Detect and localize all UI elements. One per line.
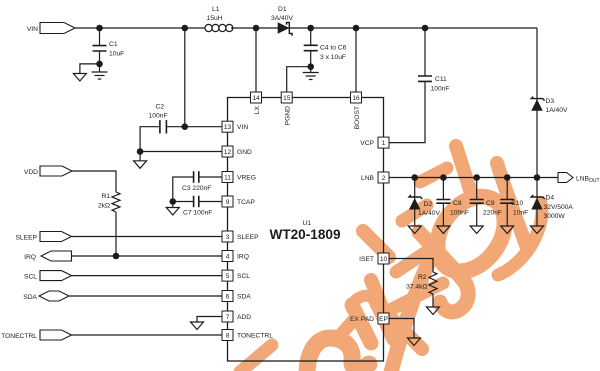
pin box 13 (222, 121, 233, 132)
svg-text:37.4kΩ: 37.4kΩ (406, 284, 427, 291)
wire C3 to corner (173, 177, 194, 208)
svg-text:2kΩ: 2kΩ (98, 203, 110, 210)
svg-text:EP: EP (379, 316, 388, 323)
junction node GND corner (137, 148, 144, 155)
svg-text:13: 13 (224, 124, 232, 131)
ground chassis (GND/C2) (134, 161, 147, 169)
junction node D3/D4 (534, 174, 541, 181)
svg-text:16: 16 (352, 95, 360, 102)
watermark f descender with left hook (419, 232, 468, 312)
diode D1 (Schottky) (278, 22, 292, 36)
wire C2 to corner (140, 127, 160, 161)
svg-text:1A/40V: 1A/40V (418, 210, 440, 217)
pin box 6 (222, 291, 233, 302)
watermark t crossbar a (384, 283, 443, 313)
svg-text:VIN: VIN (237, 124, 248, 131)
svg-text:VDD: VDD (24, 169, 38, 176)
wire C10 column bottom (506, 203, 508, 226)
wire pin9 TCAP to C7 (199, 201, 222, 203)
wire LX column (255, 28, 257, 92)
connector flag LNBOUT (558, 173, 573, 183)
svg-text:220nF: 220nF (483, 210, 502, 217)
resistor R2 (429, 272, 437, 294)
wire VIN rail mid (231, 27, 537, 29)
junction node C9 (473, 174, 480, 181)
svg-text:7: 7 (226, 314, 230, 321)
ground earth (C4) (303, 73, 319, 80)
svg-text:8: 8 (226, 333, 230, 340)
IC U1 body (228, 98, 384, 362)
svg-text:6: 6 (226, 294, 230, 301)
svg-text:R1: R1 (101, 193, 110, 200)
svg-text:3 x 10uF: 3 x 10uF (320, 54, 346, 61)
junction node C8 (440, 174, 447, 181)
wire C10 column top (506, 178, 508, 200)
pin box 5 (222, 270, 233, 281)
wire R2 to ground (432, 294, 434, 307)
svg-text:15: 15 (283, 95, 291, 102)
wire SLEEP line (72, 236, 223, 238)
junction node LX (253, 25, 260, 32)
svg-text:C3 220nF: C3 220nF (182, 185, 211, 192)
svg-text:R2: R2 (418, 274, 427, 281)
wire C1 column (99, 28, 101, 45)
capacitor C10 (500, 200, 514, 204)
svg-text:C10: C10 (511, 200, 524, 207)
wire R1 to IRQ line (115, 212, 117, 256)
svg-text:100nF: 100nF (149, 113, 168, 120)
watermark letter e loop (307, 338, 369, 371)
svg-text:9: 9 (226, 199, 230, 206)
capacitor C2 (160, 120, 167, 134)
svg-text:GND: GND (237, 149, 252, 156)
svg-text:3: 3 (226, 234, 230, 241)
svg-text:10uF: 10uF (109, 51, 124, 58)
svg-text:TONECTRL: TONECTRL (237, 333, 273, 340)
pin box 9 (222, 196, 233, 207)
svg-text:32V/500A: 32V/500A (544, 204, 574, 211)
wire C9 column top (476, 178, 478, 200)
svg-text:SDA: SDA (23, 294, 37, 301)
ground chassis (C3/C7) (166, 208, 179, 216)
svg-text:L1: L1 (212, 6, 220, 13)
svg-text:3000W: 3000W (544, 213, 566, 220)
svg-text:15uH: 15uH (207, 15, 223, 22)
wire BOOST column (355, 28, 357, 92)
junction node C1 top (96, 25, 103, 32)
pin box 11 (222, 172, 233, 183)
watermark d flick (240, 345, 272, 371)
connector flag SLEEP (40, 232, 72, 242)
pin box 12 (222, 146, 233, 157)
watermark l tip (456, 146, 472, 196)
watermark t downstroke lower (393, 320, 422, 349)
pin box 16 (351, 92, 362, 103)
ground chassis (ADD) (191, 322, 204, 330)
watermark Confidential (visible script-letter fragments, rotated) (240, 146, 542, 371)
watermark t downstroke mid (371, 280, 392, 332)
junction node C4 bottom (307, 63, 314, 70)
svg-text:C1: C1 (109, 41, 118, 48)
watermark exit hook (498, 203, 542, 275)
svg-text:C4 to C6: C4 to C6 (320, 45, 347, 52)
svg-text:C2: C2 (156, 104, 165, 111)
wire C7 left (173, 201, 194, 203)
ground chassis (R2) (427, 307, 440, 315)
wire SDA line (69, 295, 222, 297)
resistor R1 (112, 192, 120, 212)
svg-text:5: 5 (226, 273, 230, 280)
svg-text:10: 10 (380, 256, 388, 263)
junction node C3/C7 left (170, 198, 177, 205)
watermark letter n stem 1 (352, 305, 371, 343)
watermark t downstroke upper (363, 231, 389, 257)
wire C1 bottom (99, 52, 101, 72)
watermark letter n arch (353, 296, 375, 303)
svg-text:1A/40V: 1A/40V (546, 107, 568, 114)
watermark t upstroke (391, 264, 428, 371)
connector flag VIN (40, 23, 75, 34)
svg-text:VIN: VIN (27, 26, 38, 33)
pin box 4 (222, 251, 233, 262)
capacitor C7 (194, 196, 199, 207)
wire C4 bottom (310, 51, 312, 72)
capacitor C1 (93, 46, 107, 51)
watermark t crossbar b (396, 248, 432, 272)
svg-text:TCAP: TCAP (237, 199, 255, 206)
wire C11 to VCP (389, 82, 425, 143)
svg-text:U1: U1 (303, 220, 312, 227)
junction node C2 at VIN pin (182, 123, 189, 130)
capacitor C9 (470, 200, 484, 204)
watermark i dot dash a (420, 168, 447, 182)
junction node C10 (504, 174, 511, 181)
pin box 15 (281, 92, 292, 103)
svg-text:D3: D3 (546, 98, 555, 105)
svg-text:4: 4 (226, 254, 230, 261)
svg-text:C11: C11 (435, 76, 447, 83)
inductor L1 (205, 24, 233, 31)
wire pin12 GND line (140, 151, 222, 153)
pin box 2 (378, 172, 389, 183)
svg-text:SCL: SCL (237, 273, 250, 280)
wire C8 column bottom (442, 203, 444, 226)
svg-text:C7 100nF: C7 100nF (183, 210, 212, 217)
junction node BOOST (353, 25, 360, 32)
wire LNB line (389, 177, 558, 179)
wire VDD to R1 (72, 171, 116, 192)
svg-text:SLEEP: SLEEP (237, 234, 259, 241)
svg-text:VREG: VREG (237, 175, 256, 182)
svg-text:IRQ: IRQ (24, 254, 36, 261)
svg-text:ADD: ADD (237, 314, 251, 321)
svg-text:SCL: SCL (24, 274, 37, 281)
wire D3 column (536, 28, 538, 178)
svg-text:14: 14 (252, 95, 260, 102)
svg-text:TONECTRL: TONECTRL (1, 333, 37, 340)
wire ADD to ground (197, 317, 222, 323)
capacitor C8 (436, 200, 450, 204)
svg-text:2: 2 (382, 175, 386, 182)
junction node VIN/C2 column top (182, 25, 189, 32)
ground chassis (C9) (470, 226, 483, 234)
wire pin13 VIN line (166, 126, 222, 128)
ground earth (C1) (92, 72, 108, 79)
wire TONECTRL line (72, 334, 223, 336)
ground chassis (D4) (531, 226, 544, 234)
ground chassis (D2) (408, 226, 421, 234)
wire D2 column (414, 178, 416, 227)
ground chassis (C1 branch) (73, 74, 86, 82)
svg-text:C8: C8 (453, 200, 462, 207)
connector flag IRQ (output) (41, 251, 72, 261)
svg-text:WT20-1809: WT20-1809 (269, 227, 340, 242)
connector flag SDA (bidir) (39, 291, 69, 301)
svg-text:D2: D2 (424, 201, 433, 208)
svg-text:ISET: ISET (359, 256, 374, 263)
watermark big loop ring (423, 184, 518, 284)
junction node R1/IRQ (113, 253, 120, 260)
svg-text:C9: C9 (486, 200, 495, 207)
watermark e-n connector (336, 315, 358, 340)
connector flag SCL (40, 271, 72, 281)
pin box 7 (222, 311, 233, 322)
ground chassis (C8) (437, 226, 450, 234)
svg-text:BOOST: BOOST (354, 106, 361, 129)
svg-text:1: 1 (382, 140, 386, 147)
wire C1 branch to chassis ground (80, 64, 100, 74)
junction node C1 bottom (96, 61, 103, 68)
wire C11 top (424, 28, 426, 76)
capacitor C11 (418, 76, 432, 81)
svg-text:10nF: 10nF (513, 210, 528, 217)
junction node C4 top (307, 25, 314, 32)
watermark letter n stem 2 (375, 299, 394, 339)
svg-text:SLEEP: SLEEP (15, 235, 37, 242)
watermark i dot dash b (402, 205, 427, 221)
connector flag TONECTRL (40, 330, 72, 340)
wire C9 column bottom (476, 203, 478, 226)
svg-text:VCP: VCP (360, 140, 374, 147)
wire ISET to R2 (389, 259, 433, 273)
wire SCL line (72, 275, 223, 277)
svg-text:11: 11 (224, 175, 231, 182)
pin box 14 (251, 92, 262, 103)
ground chassis (C10) (501, 226, 514, 234)
wire PGND branch (287, 67, 311, 92)
wire pin11 VREG to C3 (199, 176, 222, 178)
svg-text:D4: D4 (546, 195, 555, 202)
svg-text:3A/40V: 3A/40V (271, 15, 293, 22)
wire D4 column (536, 178, 538, 227)
pin box 8 (222, 330, 233, 341)
svg-text:EX PAD: EX PAD (350, 316, 374, 323)
junction node D2 (411, 174, 418, 181)
capacitor C3 (194, 171, 199, 182)
svg-text:LNBOUT: LNBOUT (576, 176, 600, 185)
pin box 3 (222, 231, 233, 242)
wire VIN node to C2 (184, 28, 186, 127)
wire VIN rail left (75, 27, 205, 29)
connector flag VDD (40, 166, 72, 176)
svg-text:D1: D1 (278, 6, 287, 13)
wire EP to ground (389, 319, 414, 339)
diode D3 (zener) (531, 97, 544, 111)
pin box 1 (378, 137, 389, 148)
pin box EP (378, 313, 389, 324)
svg-text:100nF: 100nF (431, 86, 450, 93)
svg-text:SDA: SDA (237, 294, 251, 301)
watermark l outer downstroke (497, 163, 526, 245)
diode D2 (zener) (409, 195, 422, 210)
svg-text:100nF: 100nF (450, 210, 469, 217)
junction node C11 top (422, 25, 429, 32)
ground chassis (EP) (408, 338, 421, 346)
capacitor C4 to C6 (304, 45, 318, 50)
svg-text:12: 12 (224, 149, 232, 156)
wire C4 column (310, 28, 312, 45)
svg-text:IRQ: IRQ (237, 254, 249, 261)
diode D4 (TVS) (531, 195, 545, 210)
svg-text:PGND: PGND (285, 106, 292, 125)
svg-text:LNB: LNB (361, 175, 375, 182)
pin box 10 (378, 253, 389, 264)
wire IRQ line (72, 255, 223, 257)
svg-text:LX: LX (254, 105, 261, 114)
wire C8 column top (442, 178, 444, 200)
